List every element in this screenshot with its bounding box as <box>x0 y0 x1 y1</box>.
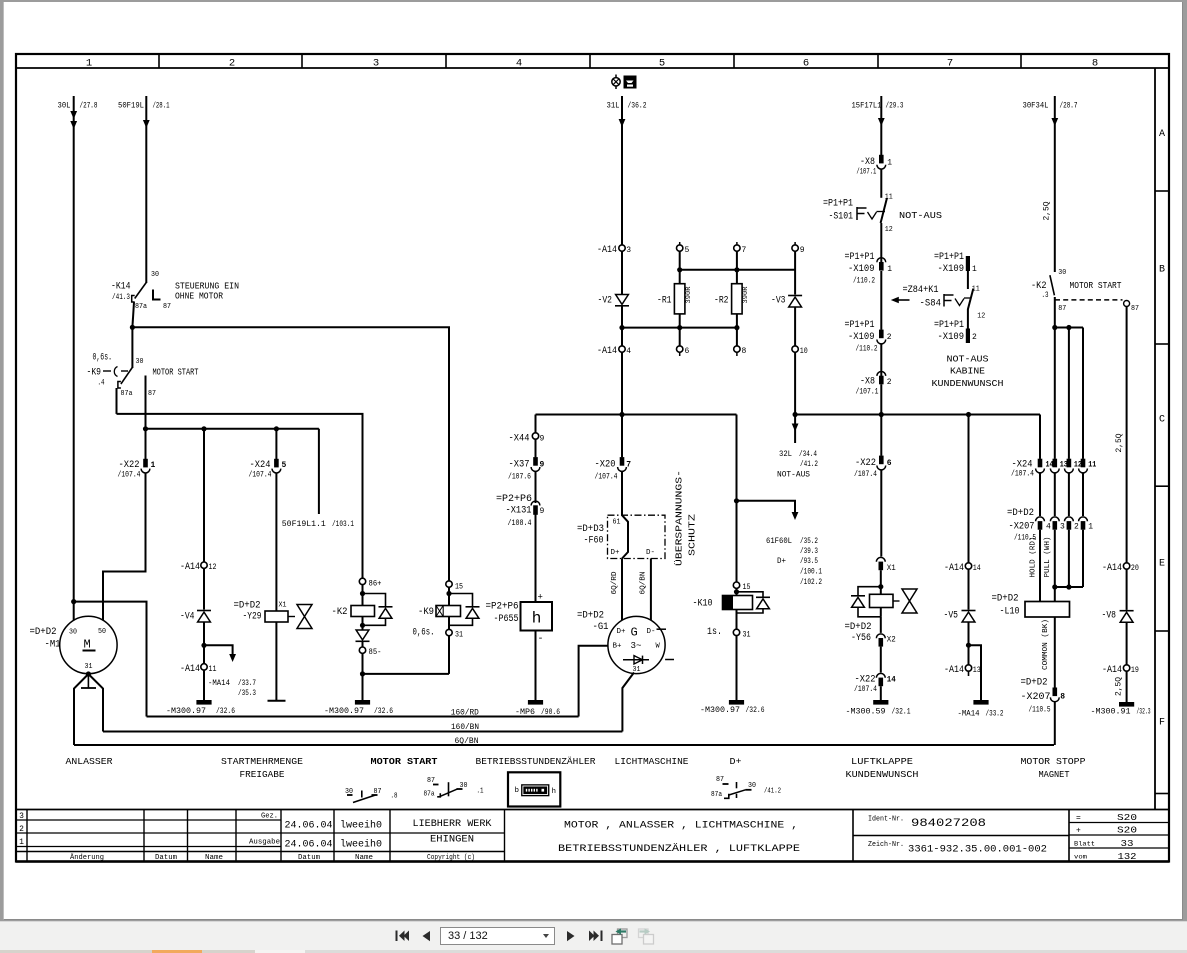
ground MP6 <box>528 700 543 705</box>
generator W stub <box>665 659 674 661</box>
motor 31 fan-out wires <box>74 674 88 745</box>
svg-text:160/RD: 160/RD <box>451 709 479 718</box>
connector X1 <box>876 557 885 561</box>
wire 30L into motor terminal 30 <box>73 602 75 621</box>
starter motor M1 circle <box>60 616 117 673</box>
svg-text:1: 1 <box>887 158 892 167</box>
relay K9 15 circle <box>446 581 452 587</box>
svg-text:=Z84+K1: =Z84+K1 <box>903 285 939 296</box>
K14 L-mark <box>153 290 161 300</box>
svg-text:9: 9 <box>540 507 545 516</box>
svg-text:31: 31 <box>85 663 93 671</box>
title block left revision rows <box>16 819 281 821</box>
svg-text:D+: D+ <box>777 557 786 566</box>
svg-text:14: 14 <box>887 676 896 685</box>
svg-text:/29.3: /29.3 <box>886 102 904 111</box>
bus 6Q/BN <box>74 744 1054 746</box>
wire junction to K9 coil column <box>132 327 449 581</box>
wire X109:1 to X109:2 <box>880 271 882 330</box>
svg-text:2: 2 <box>972 333 977 342</box>
svg-text:/33.7: /33.7 <box>238 679 256 688</box>
svg-text:12: 12 <box>885 226 893 234</box>
svg-text:87: 87 <box>716 776 724 784</box>
wire A14:11 to ground <box>203 670 205 700</box>
svg-text:2,5Q: 2,5Q <box>1115 433 1124 452</box>
wire X24:5 to valve Y29 <box>275 473 277 611</box>
bus segment left of 32L <box>536 414 737 416</box>
svg-text:Zeich-Nr.: Zeich-Nr. <box>868 841 904 849</box>
svg-text:S20: S20 <box>1117 812 1137 823</box>
svg-text:/32.6: /32.6 <box>216 707 235 716</box>
svg-text:2: 2 <box>1074 522 1079 531</box>
svg-text:=D+D2: =D+D2 <box>1007 508 1034 519</box>
generator G1 circle <box>608 616 665 673</box>
reference arrow to Z84 <box>897 299 910 301</box>
wire X22:6 to X1 <box>880 470 882 557</box>
svg-text:15: 15 <box>743 583 751 592</box>
svg-text:/28.7: /28.7 <box>1060 102 1078 111</box>
wires R1 R2 to lower rail <box>679 314 681 346</box>
connector X2 <box>876 634 885 638</box>
svg-text:-A14: -A14 <box>944 665 964 676</box>
svg-text:SCHUTZ: SCHUTZ <box>687 514 698 556</box>
svg-text:lweeih0: lweeih0 <box>340 839 382 851</box>
svg-text:12: 12 <box>1074 460 1082 469</box>
ident-nr divider vertical <box>852 810 854 862</box>
relay K10 coil with filled section <box>723 596 753 610</box>
motor ground symbol <box>87 674 89 688</box>
connector X109 pin 2 left <box>879 330 884 339</box>
wire F60 D- to generator <box>650 559 652 621</box>
svg-text:390R: 390R <box>685 286 692 303</box>
svg-text:87: 87 <box>163 303 171 311</box>
wire S101 to X109:1 <box>880 223 882 262</box>
mechanical link dashed to aux contact <box>1055 299 1123 301</box>
svg-text:=P1+P1: =P1+P1 <box>845 320 875 331</box>
solenoid valve Y29 coil <box>265 611 288 622</box>
svg-text:X1: X1 <box>887 564 896 573</box>
svg-text:-V8: -V8 <box>1102 610 1117 621</box>
svg-text:3: 3 <box>373 57 379 69</box>
net 50F19L arrowhead <box>143 120 150 128</box>
svg-text:h: h <box>532 610 542 628</box>
K9 87 terminal wire to bus <box>145 376 147 429</box>
svg-text:/35.3: /35.3 <box>238 689 256 698</box>
svg-text:9: 9 <box>540 461 545 470</box>
wire F60 D+ to generator <box>621 559 623 621</box>
svg-text:2,5Q: 2,5Q <box>1042 201 1051 220</box>
ground M300.91 <box>1119 702 1134 707</box>
svg-text:32L: 32L <box>779 450 792 459</box>
wire V3 to circle 10 <box>794 307 796 346</box>
wire L10 common <box>1054 617 1056 688</box>
svg-text:132: 132 <box>1118 851 1137 862</box>
connector circle 10 <box>792 346 798 352</box>
svg-text:-P655: -P655 <box>494 614 519 625</box>
net 31L arrowhead <box>619 119 626 127</box>
toolbar last page button <box>589 931 603 942</box>
svg-text:6: 6 <box>685 347 690 356</box>
right band row separators <box>1155 190 1169 192</box>
svg-text:-MA14: -MA14 <box>208 679 230 688</box>
svg-text:15F17L1: 15F17L1 <box>852 102 882 111</box>
bus segment right of 32L <box>795 414 1040 416</box>
svg-text:/41.2: /41.2 <box>800 460 818 469</box>
ground M300.59 <box>873 700 888 705</box>
svg-text:COMMON (BK): COMMON (BK) <box>1042 619 1050 670</box>
svg-text:-G1: -G1 <box>593 622 609 633</box>
svg-text:/33.2: /33.2 <box>986 709 1004 718</box>
svg-text:31L: 31L <box>607 102 620 111</box>
svg-text:-X207: -X207 <box>1021 692 1051 703</box>
svg-text:8: 8 <box>1092 57 1098 69</box>
K10 31 circle <box>736 610 738 630</box>
svg-text:2: 2 <box>887 378 892 387</box>
svg-text:-X109: -X109 <box>848 332 875 343</box>
svg-text:-Y56: -Y56 <box>851 633 871 644</box>
svg-text:LIEBHERR WERK: LIEBHERR WERK <box>413 819 492 830</box>
svg-text:1: 1 <box>19 838 24 847</box>
wire S84 to X109:2 <box>967 309 969 329</box>
title block top line <box>16 809 1169 811</box>
connector X109 pin 1 right <box>966 256 970 271</box>
svg-text:31: 31 <box>455 631 463 640</box>
svg-text:/34.4: /34.4 <box>799 450 817 459</box>
svg-text:-R1: -R1 <box>657 296 672 307</box>
net 15F17L1 arrowhead <box>878 118 885 126</box>
svg-text:8: 8 <box>742 347 747 356</box>
connector circle A14:12 <box>201 562 207 568</box>
toolbar next page button <box>567 931 575 941</box>
svg-text:9: 9 <box>540 435 545 444</box>
svg-text:lweeih0: lweeih0 <box>340 820 382 832</box>
svg-text:-L10: -L10 <box>1000 607 1020 618</box>
svg-text:Copyright (c): Copyright (c) <box>427 854 475 862</box>
legend hour counter box <box>508 772 560 806</box>
svg-text:/110.2: /110.2 <box>856 344 878 353</box>
wire generator 31 to bus 16Q/BN <box>622 673 634 732</box>
svg-text:-X44: -X44 <box>509 433 530 444</box>
svg-text:11: 11 <box>209 665 217 674</box>
connector circle A14:3 <box>619 245 625 251</box>
connector circle A14:14 <box>965 563 971 569</box>
toolbar first page button <box>396 931 410 942</box>
wire K9 31 to K2 return <box>448 636 450 674</box>
svg-text:30: 30 <box>1058 269 1066 277</box>
svg-text:=D+D2: =D+D2 <box>30 627 57 638</box>
svg-text:3: 3 <box>626 246 631 255</box>
svg-text:=D+D2: =D+D2 <box>234 601 261 612</box>
node to MA14 branch <box>201 643 206 648</box>
connector X109 pin 2 right <box>966 329 970 344</box>
svg-text:-X20: -X20 <box>595 460 616 471</box>
svg-text:30: 30 <box>748 782 756 790</box>
svg-text:/107.4: /107.4 <box>854 470 877 479</box>
svg-text:D+: D+ <box>730 756 742 767</box>
svg-text:/107.4: /107.4 <box>249 470 272 479</box>
wire X44 to X37 <box>535 439 537 457</box>
svg-text:3361-932.35.00.001-002: 3361-932.35.00.001-002 <box>908 845 1047 856</box>
svg-text:-K10: -K10 <box>693 598 713 609</box>
distribution row under K2 <box>1055 327 1083 329</box>
connector X20 pin 7 <box>621 415 623 458</box>
svg-text:7: 7 <box>626 461 631 470</box>
svg-text:2,5Q: 2,5Q <box>1114 677 1123 696</box>
relay K2 coil <box>351 606 375 617</box>
svg-text:=D+D2: =D+D2 <box>577 610 604 621</box>
svg-text:HOLD (RD): HOLD (RD) <box>1030 537 1038 578</box>
wire X8:1 to S101 <box>880 169 882 198</box>
svg-text:FREIGABE: FREIGABE <box>240 769 285 780</box>
svg-text:BETRIEBSSTUNDENZÄHLER , LUFTKL: BETRIEBSSTUNDENZÄHLER , LUFTKLAPPE <box>558 842 800 855</box>
svg-text:-A14: -A14 <box>1102 665 1122 676</box>
wire circle 10 to bus and 32L exit <box>794 352 796 414</box>
svg-text:/32.6: /32.6 <box>746 706 765 715</box>
svg-text:1: 1 <box>972 265 977 274</box>
svg-text:87: 87 <box>1131 305 1139 313</box>
svg-text:11: 11 <box>1088 460 1096 469</box>
svg-text:3: 3 <box>19 812 24 821</box>
svg-text:5: 5 <box>685 246 690 255</box>
svg-text:Datum: Datum <box>298 854 320 862</box>
svg-text:X2: X2 <box>887 635 896 644</box>
svg-text:=P1+P1: =P1+P1 <box>934 320 964 331</box>
wire X8:2 to bus <box>880 384 882 414</box>
tie row at magnet <box>1055 586 1083 588</box>
svg-text:=P2+P6: =P2+P6 <box>486 602 519 613</box>
svg-text:30: 30 <box>69 629 77 637</box>
generator internal diode <box>623 659 649 661</box>
svg-text:/107.6: /107.6 <box>508 473 531 482</box>
svg-text:=P1+P1: =P1+P1 <box>845 252 875 263</box>
connector circle 7 <box>736 242 738 245</box>
svg-text:-MA14: -MA14 <box>958 709 980 718</box>
net 30F34L entry wire <box>1054 96 1056 272</box>
ground M300.97 under K10 <box>729 700 744 705</box>
wire K2 to ground node <box>362 653 364 700</box>
stop magnet L10 <box>1025 602 1070 618</box>
svg-text:D-: D- <box>646 549 655 557</box>
svg-text:30: 30 <box>136 358 144 366</box>
connector circle A14:13 <box>965 665 971 671</box>
svg-text:+: + <box>1076 827 1081 836</box>
svg-text:2: 2 <box>19 825 24 834</box>
svg-text:.1: .1 <box>477 787 484 795</box>
K2 85- circle <box>359 647 365 653</box>
svg-text:MOTOR , ANLASSER , LICHTMASCHI: MOTOR , ANLASSER , LICHTMASCHINE , <box>564 821 798 832</box>
wires X24 to X207 <box>1039 473 1041 516</box>
svg-text:/107.4: /107.4 <box>1011 469 1034 478</box>
connector circle 8 <box>734 346 740 352</box>
wire bus to A14:14 <box>968 415 970 563</box>
svg-text:-A14: -A14 <box>597 346 617 357</box>
connector circle A14:19 <box>1123 665 1129 671</box>
svg-text:LUFTKLAPPE: LUFTKLAPPE <box>851 756 913 767</box>
wire bus to connector A14:12 <box>203 429 205 562</box>
svg-text:14: 14 <box>1046 460 1054 469</box>
connector circle 6 <box>677 346 683 352</box>
wire X109:1 to S84 <box>967 271 969 289</box>
svg-text:Gez.: Gez. <box>261 813 278 821</box>
svg-text:1: 1 <box>887 265 892 274</box>
wire generator B+ to bus 16Q/RD <box>579 646 608 717</box>
svg-text:Name: Name <box>205 854 223 862</box>
svg-text:/100.1: /100.1 <box>800 568 822 577</box>
svg-text:-V5: -V5 <box>944 610 959 621</box>
svg-text:D-: D- <box>647 628 656 636</box>
svg-text:7: 7 <box>947 57 953 69</box>
connector X22 pin 6 <box>880 415 882 456</box>
header band bottom line <box>16 67 1169 69</box>
lamp symbol icon <box>615 75 617 79</box>
svg-text:ANLASSER: ANLASSER <box>66 756 113 767</box>
svg-text:-X109: -X109 <box>938 332 965 343</box>
svg-text:/28.1: /28.1 <box>153 102 170 111</box>
svg-text:C: C <box>1159 415 1165 426</box>
svg-text:-: - <box>538 634 544 645</box>
sheet info sub-table <box>1068 810 1070 862</box>
header column ticks <box>158 54 160 68</box>
svg-text:-M300.97: -M300.97 <box>324 707 364 716</box>
svg-text:KUNDENWUNSCH: KUNDENWUNSCH <box>846 769 919 780</box>
ground T below Y29 <box>268 700 286 702</box>
svg-text:/110.2: /110.2 <box>853 276 875 285</box>
wire A14:20 to diode V8 <box>1126 569 1128 610</box>
wire A14:4 to bus node <box>621 352 623 414</box>
svg-text:-K9: -K9 <box>87 368 102 379</box>
svg-text:-A14: -A14 <box>597 245 617 256</box>
valve Y56 symbol <box>893 600 900 602</box>
toolbar previous view icon <box>612 928 627 944</box>
svg-text:4: 4 <box>516 57 522 69</box>
svg-text:30F34L: 30F34L <box>1023 102 1049 111</box>
svg-text:-X8: -X8 <box>860 377 875 388</box>
svg-text:2: 2 <box>229 57 235 69</box>
svg-text:G: G <box>631 626 638 640</box>
lower distribution bus <box>146 428 319 430</box>
svg-text:3: 3 <box>1060 522 1065 531</box>
net 15F17L1 entry wire <box>880 96 882 155</box>
wire A14:12 to diode V4 <box>203 568 205 609</box>
wire X22:14 to ground <box>880 686 882 700</box>
svg-text:MOTOR STOPP: MOTOR STOPP <box>1021 756 1086 767</box>
K9 coil top node and diode branch <box>448 587 450 605</box>
svg-text:=D+D3: =D+D3 <box>577 524 604 535</box>
svg-text:1s.: 1s. <box>707 627 722 638</box>
svg-text:1: 1 <box>151 461 156 470</box>
valve Y29 symbol <box>288 616 295 618</box>
wire node to bus 16Q/RD <box>74 602 147 717</box>
svg-text:87a: 87a <box>711 791 722 799</box>
wire V4 to node <box>203 622 205 666</box>
svg-text:-X109: -X109 <box>938 264 965 275</box>
resistor R2 <box>732 284 743 314</box>
connector circle A14:20 <box>1123 563 1129 569</box>
wire Y29 to ground <box>275 622 277 701</box>
right band bottom tick <box>1155 793 1169 795</box>
svg-text:-R2: -R2 <box>714 296 729 307</box>
svg-text:-K9: -K9 <box>418 607 434 618</box>
svg-text:LICHTMASCHINE: LICHTMASCHINE <box>615 756 689 767</box>
svg-text:MOTOR START: MOTOR START <box>371 756 438 767</box>
svg-text:87: 87 <box>1058 305 1066 313</box>
svg-text:-X22: -X22 <box>119 460 140 471</box>
svg-text:ÜBERSPANNUNGS-: ÜBERSPANNUNGS- <box>674 470 685 566</box>
svg-text:50: 50 <box>98 628 106 636</box>
timer contact K9 with 0,6s delay <box>131 327 133 368</box>
aux contact 87 circle <box>1124 301 1130 307</box>
svg-text:=P1+P1: =P1+P1 <box>934 252 964 263</box>
wire X131 to hour meter <box>535 514 537 603</box>
overvoltage protection box F60 dashed <box>608 515 666 558</box>
connector X8 pin 2 <box>877 372 886 376</box>
svg-text:1: 1 <box>1088 522 1093 531</box>
svg-text:OHNE MOTOR: OHNE MOTOR <box>175 291 223 302</box>
wire hour meter to ground <box>535 631 537 701</box>
K2 bottom node <box>360 623 365 628</box>
A14:13 stub <box>968 671 970 676</box>
svg-text:5: 5 <box>282 461 287 470</box>
title block bottom line <box>16 860 1169 862</box>
svg-text:0,6s.: 0,6s. <box>413 627 435 638</box>
junction node below K14 <box>130 325 135 330</box>
svg-text:7: 7 <box>742 246 747 255</box>
node on net 30L at motor <box>71 599 76 604</box>
svg-text:-M300.97: -M300.97 <box>700 706 740 715</box>
svg-text:13: 13 <box>973 666 981 675</box>
svg-text:-X24: -X24 <box>250 460 271 471</box>
svg-text:50F19L1.1: 50F19L1.1 <box>282 520 326 529</box>
svg-text:4: 4 <box>1046 522 1051 531</box>
svg-text:-X109: -X109 <box>848 264 875 275</box>
solenoid valve Y56 coil <box>870 594 894 607</box>
svg-text:15: 15 <box>455 582 463 591</box>
net 30F34L arrowhead <box>1051 118 1058 126</box>
svg-text:/107.4: /107.4 <box>595 473 618 482</box>
svg-text:9: 9 <box>800 246 805 255</box>
svg-text:B: B <box>1159 265 1165 276</box>
svg-text:/103.1: /103.1 <box>332 520 354 529</box>
wire V8 to A14:19 <box>1126 622 1128 665</box>
svg-text:/27.8: /27.8 <box>80 102 98 111</box>
svg-text:/93.5: /93.5 <box>800 557 818 566</box>
svg-text:14: 14 <box>973 564 981 573</box>
svg-text:.8: .8 <box>391 792 398 800</box>
svg-text:NOT-AUS: NOT-AUS <box>777 470 810 479</box>
svg-text:6: 6 <box>803 57 809 69</box>
ident/zeich divider horizontal <box>853 835 1069 837</box>
wires below X207 <box>1039 530 1041 602</box>
ground M300.97 left <box>196 700 211 705</box>
svg-text:M: M <box>84 638 91 652</box>
wire X22:1 to starter motor terminal 50 <box>103 473 146 621</box>
svg-text:-X22: -X22 <box>855 674 876 685</box>
svg-text:6: 6 <box>887 459 892 468</box>
svg-text:=P1+P1: =P1+P1 <box>823 199 853 210</box>
svg-text:/32.3: /32.3 <box>1137 707 1151 716</box>
svg-text:984027208: 984027208 <box>911 818 986 830</box>
svg-text:.4: .4 <box>98 378 105 387</box>
svg-text:/107.4: /107.4 <box>118 470 141 479</box>
resistor R1 <box>674 284 685 314</box>
svg-text:31: 31 <box>743 630 751 639</box>
svg-text:-M300.91: -M300.91 <box>1091 707 1131 716</box>
svg-text:=D+D2: =D+D2 <box>845 622 872 633</box>
svg-text:-K2: -K2 <box>332 607 348 618</box>
wire aux 87 down to A14:20 <box>1126 307 1128 563</box>
svg-text:-V3: -V3 <box>771 296 786 307</box>
svg-text:1: 1 <box>86 57 92 69</box>
